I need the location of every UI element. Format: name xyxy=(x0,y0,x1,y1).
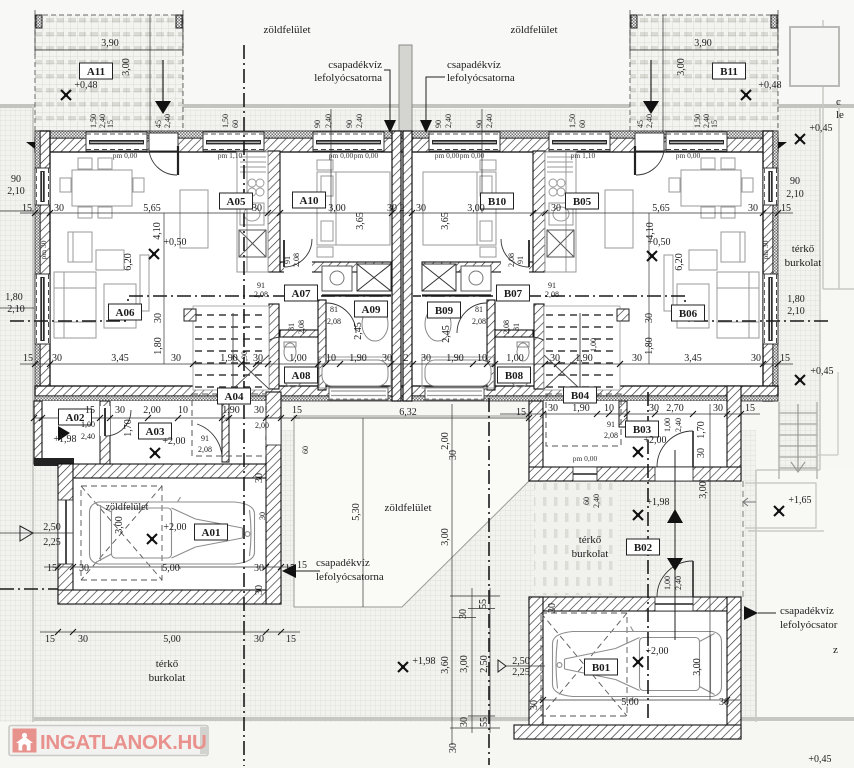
svg-text:A10: A10 xyxy=(300,195,319,207)
svg-text:3,45: 3,45 xyxy=(111,353,129,364)
svg-text:2,40: 2,40 xyxy=(81,432,95,441)
svg-text:90: 90 xyxy=(313,120,322,128)
svg-text:1,90: 1,90 xyxy=(220,353,238,364)
dimension line garage A outer y632 xyxy=(40,631,300,633)
axis line A vertical xyxy=(243,45,245,766)
bathtub A09 xyxy=(322,360,388,386)
svg-text:15: 15 xyxy=(745,403,755,414)
ticks annex A row xyxy=(31,415,532,421)
plot boundary left gray line xyxy=(32,106,34,722)
room label A11 xyxy=(80,63,113,79)
interior wall B A08/A09 divider xyxy=(487,300,495,390)
svg-text:30: 30 xyxy=(254,563,264,574)
interior wall B03 bottom xyxy=(529,467,741,481)
svg-text:90: 90 xyxy=(345,120,354,128)
svg-text:30: 30 xyxy=(649,403,659,414)
svg-text:15: 15 xyxy=(292,405,302,416)
svg-text:81: 81 xyxy=(512,323,521,331)
svg-text:burkolat: burkolat xyxy=(572,548,609,560)
svg-text:91: 91 xyxy=(283,256,292,264)
svg-text:c: c xyxy=(836,96,841,108)
svg-text:térkő: térkő xyxy=(156,658,179,670)
svg-text:15: 15 xyxy=(285,563,295,574)
svg-text:30: 30 xyxy=(548,403,558,414)
unit B furniture (mirrored) xyxy=(422,152,759,388)
svg-text:2,25: 2,25 xyxy=(43,537,61,548)
survey point NE xyxy=(795,134,805,144)
room label B11 xyxy=(713,63,746,79)
svg-text:1,90: 1,90 xyxy=(575,353,593,364)
svg-text:30: 30 xyxy=(253,353,263,364)
svg-text:60: 60 xyxy=(231,120,240,128)
svg-text:10: 10 xyxy=(477,353,487,364)
svg-text:lefolyócsatorna: lefolyócsatorna xyxy=(314,72,382,84)
A02/A03 divider xyxy=(100,401,110,464)
door arc bedroom B xyxy=(501,239,529,267)
svg-text:2,40: 2,40 xyxy=(444,114,453,128)
svg-text:pm 30: pm 30 xyxy=(39,240,48,259)
svg-text:15: 15 xyxy=(516,407,526,418)
sink oval A09 xyxy=(362,307,388,341)
svg-text:2,08: 2,08 xyxy=(327,317,341,326)
interior wall garage B01 bottom xyxy=(514,725,741,739)
landing outline +1,65 xyxy=(745,483,824,531)
svg-text:2,45: 2,45 xyxy=(441,325,452,343)
svg-text:+0,48: +0,48 xyxy=(758,80,781,91)
section line unit A xyxy=(10,296,392,321)
garage B01 door opening xyxy=(655,597,693,611)
terrace A11 dashed border xyxy=(35,15,183,133)
vertical dim chain x472 xyxy=(471,588,473,733)
svg-text:1,50: 1,50 xyxy=(89,114,98,128)
dimension line annex A row y418 xyxy=(34,417,300,419)
svg-text:pm 0,00: pm 0,00 xyxy=(460,151,485,160)
svg-text:2,08: 2,08 xyxy=(507,253,516,267)
svg-text:30: 30 xyxy=(448,450,459,460)
svg-text:30: 30 xyxy=(387,203,397,214)
A02 bottom wall xyxy=(34,458,74,466)
area above building plain xyxy=(0,0,854,107)
svg-text:2,00: 2,00 xyxy=(255,421,269,430)
svg-text:2,10: 2,10 xyxy=(787,306,805,317)
corner triangle right xyxy=(778,142,787,149)
svg-text:45: 45 xyxy=(636,120,645,128)
dimension line garage A inner y567 xyxy=(44,566,290,568)
interior wall A kitchen/bed A xyxy=(268,151,280,272)
svg-text:zöldfelület: zöldfelület xyxy=(106,502,149,513)
svg-text:2,40: 2,40 xyxy=(645,114,654,128)
axis line B vertical xyxy=(647,392,649,722)
svg-text:pm 0,00: pm 0,00 xyxy=(435,151,460,160)
survey point A11 xyxy=(61,90,71,100)
svg-text:30: 30 xyxy=(751,353,761,364)
svg-text:lefolyócsatorna: lefolyócsatorna xyxy=(447,72,515,84)
vertical dim line yard 5.30 xyxy=(362,418,364,607)
svg-text:2,08: 2,08 xyxy=(254,290,268,299)
rain outlet arrow terrace B xyxy=(643,60,659,114)
svg-text:B09: B09 xyxy=(435,305,454,317)
svg-text:6,32: 6,32 xyxy=(399,407,417,418)
room label A09 xyxy=(355,301,388,317)
room label B09 xyxy=(428,302,461,318)
outer wall right insulation xyxy=(773,131,778,401)
outer wall top insulation xyxy=(35,131,778,138)
vertical dim line B02 3.00 xyxy=(709,404,711,700)
svg-text:30: 30 xyxy=(79,563,89,574)
svg-text:B07: B07 xyxy=(504,288,523,300)
svg-text:91: 91 xyxy=(516,256,525,264)
svg-text:pm 0,00: pm 0,00 xyxy=(354,151,379,160)
terrace B11 post left xyxy=(631,15,637,28)
bottom ground band xyxy=(34,430,756,722)
svg-text:+0,45: +0,45 xyxy=(808,754,831,765)
svg-text:2,10: 2,10 xyxy=(7,186,25,197)
svg-text:15: 15 xyxy=(710,120,719,128)
ticks garage B row xyxy=(540,697,730,703)
svg-text:60: 60 xyxy=(582,497,591,505)
right paver strip xyxy=(778,107,820,470)
room label B03 xyxy=(626,421,659,437)
svg-text:15: 15 xyxy=(47,563,57,574)
downpipe arrow garage B xyxy=(744,606,758,620)
svg-text:A07: A07 xyxy=(292,288,311,300)
interior wall B stair/A08 wall xyxy=(534,304,544,389)
garage B01 door arc xyxy=(657,561,693,597)
svg-text:A09: A09 xyxy=(362,304,381,316)
svg-text:91: 91 xyxy=(257,281,265,290)
terrace B11 deck xyxy=(630,15,778,133)
washer A xyxy=(322,266,352,291)
vertical dim chain x490n xyxy=(489,588,491,733)
svg-text:+1,98: +1,98 xyxy=(412,656,435,667)
svg-text:1,90: 1,90 xyxy=(349,353,367,364)
party wall leaf B xyxy=(403,131,412,401)
interior wall garage B01 right xyxy=(727,597,741,739)
svg-text:91: 91 xyxy=(607,420,615,429)
survey point B01 xyxy=(633,657,643,667)
svg-text:A11: A11 xyxy=(87,66,105,78)
vertical dim chain x452 xyxy=(451,404,453,745)
garage A left dim line xyxy=(0,532,73,534)
armchair A xyxy=(68,232,92,262)
svg-text:2,50: 2,50 xyxy=(479,655,490,673)
ramp arrow B02 up xyxy=(667,450,683,640)
svg-text:15: 15 xyxy=(45,634,55,645)
room label A08 xyxy=(285,367,318,383)
dimension line garage B inner y668 xyxy=(540,699,740,701)
interior wall B kitchen/bed A xyxy=(533,151,545,272)
interior wall B03 right wall xyxy=(727,386,741,481)
right boundary extra lines xyxy=(816,372,838,455)
chain tick lines xyxy=(450,596,500,728)
door arc A08 xyxy=(256,337,282,363)
A02 door leaf xyxy=(100,406,110,436)
svg-text:INGATLANOK.HU: INGATLANOK.HU xyxy=(40,731,207,754)
corner triangle left xyxy=(26,142,35,149)
svg-text:30: 30 xyxy=(254,585,265,595)
room label B05 xyxy=(566,193,599,209)
room label A01 xyxy=(195,524,228,540)
svg-text:2,50: 2,50 xyxy=(512,656,530,667)
survey point B06 xyxy=(647,251,657,261)
plot boundary bottom gray line xyxy=(34,717,854,721)
window A-3 in top wall xyxy=(313,132,384,151)
B09 top wall line xyxy=(422,294,491,296)
interior wall A02 left wall xyxy=(34,401,42,464)
dimension line annex B row y414 xyxy=(500,413,760,415)
svg-text:2,40: 2,40 xyxy=(324,114,333,128)
svg-text:1,90: 1,90 xyxy=(572,403,590,414)
svg-text:1,80: 1,80 xyxy=(5,292,23,303)
svg-text:pm 30: pm 30 xyxy=(761,240,770,259)
door arc B08 xyxy=(531,337,557,363)
svg-text:5,30: 5,30 xyxy=(351,503,362,521)
svg-text:30: 30 xyxy=(458,609,469,619)
B04 porch dashed xyxy=(546,394,621,446)
svg-text:90: 90 xyxy=(475,120,484,128)
svg-text:1,80: 1,80 xyxy=(644,337,655,355)
svg-text:30: 30 xyxy=(416,203,426,214)
dining table A xyxy=(72,170,132,206)
svg-text:15: 15 xyxy=(85,405,95,416)
entry arrow left plot xyxy=(20,526,33,541)
svg-text:1,00: 1,00 xyxy=(589,338,598,352)
dimension line row y364 xyxy=(20,363,793,365)
svg-text:10: 10 xyxy=(604,403,614,414)
axis line left short xyxy=(0,588,58,590)
plot boundary top gray line xyxy=(0,104,854,108)
vertical dim line B 4.10 xyxy=(648,213,650,364)
svg-text:2,50: 2,50 xyxy=(43,522,61,533)
svg-text:3,00: 3,00 xyxy=(121,58,132,76)
svg-text:pm 0,00: pm 0,00 xyxy=(676,151,701,160)
coffee table A xyxy=(104,284,136,328)
garage A01 door opening xyxy=(58,500,73,564)
svg-text:4,10: 4,10 xyxy=(152,222,163,240)
svg-text:1,00: 1,00 xyxy=(289,353,307,364)
svg-text:+1,98: +1,98 xyxy=(646,497,669,508)
svg-text:1,00: 1,00 xyxy=(506,353,524,364)
svg-text:30: 30 xyxy=(421,353,431,364)
room label A05 xyxy=(220,193,253,209)
svg-text:30: 30 xyxy=(644,313,655,323)
ticks row y364 xyxy=(32,361,781,367)
svg-text:30: 30 xyxy=(696,448,707,458)
svg-text:2,08: 2,08 xyxy=(545,290,559,299)
survey point B11 xyxy=(741,90,751,100)
svg-text:2: 2 xyxy=(400,203,405,214)
sofa A xyxy=(54,272,96,338)
svg-text:5,00: 5,00 xyxy=(621,697,639,708)
survey point A03 xyxy=(150,448,160,458)
garage B01 floor xyxy=(529,597,741,739)
interior wall A A08/A09 divider xyxy=(318,300,326,390)
room label B06 xyxy=(672,305,705,321)
bottom-right plain ground xyxy=(756,470,854,722)
svg-text:2,70: 2,70 xyxy=(666,403,684,414)
interior wall B bed A bottom xyxy=(422,262,533,272)
svg-text:+1,65: +1,65 xyxy=(788,495,811,506)
A03/A04 divider xyxy=(222,401,229,462)
svg-text:15: 15 xyxy=(780,353,790,364)
B03 garden door arc xyxy=(657,431,693,467)
svg-text:B08: B08 xyxy=(505,370,524,382)
svg-text:30: 30 xyxy=(258,512,267,520)
svg-text:1,50: 1,50 xyxy=(568,114,577,128)
central garden yard zoldfelulet xyxy=(294,416,529,607)
svg-text:B06: B06 xyxy=(679,308,698,320)
interior wall B03 left wall xyxy=(529,401,543,481)
room label B04 xyxy=(564,387,597,403)
room label B01 xyxy=(585,659,618,675)
svg-text:1,50: 1,50 xyxy=(221,114,230,128)
sidewalk band above building xyxy=(35,109,778,131)
B03 interior door arc xyxy=(317,0,319,1)
door gap bedroom B xyxy=(501,261,529,273)
svg-text:+0,45: +0,45 xyxy=(810,366,833,377)
svg-text:pm 1,10: pm 1,10 xyxy=(218,151,243,160)
B03 floor xyxy=(529,401,741,481)
interior wall garage A01 bottom xyxy=(58,590,281,604)
outer wall bottom insulation xyxy=(35,396,778,401)
A03 door arc xyxy=(197,424,222,461)
room label A07 xyxy=(285,285,318,301)
svg-text:30: 30 xyxy=(448,743,459,753)
window A-1 in top wall xyxy=(86,132,147,151)
interior wall A bed A bottom xyxy=(280,262,391,272)
terrace B11 dim lines xyxy=(630,10,778,133)
dimension line row y213 xyxy=(20,212,793,214)
svg-text:B05: B05 xyxy=(573,196,592,208)
A04 porch dashed xyxy=(192,394,266,456)
A02 door arc xyxy=(105,410,131,436)
car in garage A01 xyxy=(90,497,255,569)
svg-text:A04: A04 xyxy=(225,391,244,403)
svg-text:30: 30 xyxy=(719,697,729,708)
svg-text:2,08: 2,08 xyxy=(198,445,212,454)
svg-text:60: 60 xyxy=(578,120,587,128)
svg-text:81: 81 xyxy=(475,305,483,314)
svg-text:3,90: 3,90 xyxy=(101,38,119,49)
svg-text:zöldfelület: zöldfelület xyxy=(384,502,431,514)
window B-2 in top wall xyxy=(549,132,610,151)
svg-text:2,08: 2,08 xyxy=(292,253,301,267)
downpipe arrow right label xyxy=(420,77,445,133)
svg-text:pm 0,00: pm 0,00 xyxy=(329,151,354,160)
B03/B04 stub wall xyxy=(619,401,627,427)
svg-text:30: 30 xyxy=(632,353,642,364)
party wall stub above roof xyxy=(399,45,412,131)
room label A10 xyxy=(293,192,326,208)
svg-text:B10: B10 xyxy=(488,196,507,208)
svg-text:A05: A05 xyxy=(227,196,246,208)
svg-text:30: 30 xyxy=(171,353,181,364)
svg-text:3,00: 3,00 xyxy=(114,516,125,534)
svg-text:A08: A08 xyxy=(292,370,311,382)
svg-text:2,25: 2,25 xyxy=(512,667,530,678)
svg-text:3,45: 3,45 xyxy=(684,353,702,364)
room label B08 xyxy=(498,367,531,383)
door arc bedroom A xyxy=(284,239,312,267)
survey point E xyxy=(795,375,805,385)
svg-text:2,08: 2,08 xyxy=(604,431,618,440)
staircase unit B xyxy=(544,306,629,390)
svg-text:1,70: 1,70 xyxy=(696,421,707,439)
svg-text:30: 30 xyxy=(54,203,64,214)
room label B07 xyxy=(497,285,530,301)
svg-text:2,08: 2,08 xyxy=(297,320,306,334)
outer wall bottom hatch xyxy=(35,386,778,396)
left edge dim line y211 xyxy=(0,211,34,308)
party wall leaf A xyxy=(392,131,401,401)
svg-text:30: 30 xyxy=(748,203,758,214)
interior wall A A08 top xyxy=(280,330,318,337)
terrace A11 dash rows xyxy=(35,15,183,133)
svg-text:15: 15 xyxy=(297,560,307,571)
terrace A11 deck xyxy=(35,15,183,133)
svg-text:A01: A01 xyxy=(202,527,221,539)
section line unit B xyxy=(413,296,828,321)
svg-text:2,40: 2,40 xyxy=(674,418,683,432)
terrace B11 dash rows xyxy=(630,15,778,133)
small arrow to landing xyxy=(743,498,756,506)
svg-text:90: 90 xyxy=(11,174,21,185)
svg-text:30: 30 xyxy=(529,700,540,710)
survey point B02 xyxy=(633,510,643,520)
svg-text:3,00: 3,00 xyxy=(692,658,703,676)
building interior floor xyxy=(35,131,778,401)
svg-text:10: 10 xyxy=(178,405,188,416)
svg-text:2,40: 2,40 xyxy=(163,114,172,128)
svg-text:2,10: 2,10 xyxy=(786,189,804,200)
svg-text:3,00: 3,00 xyxy=(698,481,709,499)
interior wall garage B01 top xyxy=(529,597,741,611)
svg-text:+2,00: +2,00 xyxy=(645,646,668,657)
svg-text:1,90: 1,90 xyxy=(446,353,464,364)
svg-text:30: 30 xyxy=(547,603,558,613)
kitchen counter A xyxy=(237,152,268,272)
ticks annex B row xyxy=(526,411,744,417)
survey point SE xyxy=(774,506,784,516)
svg-text:3,65: 3,65 xyxy=(355,212,366,230)
svg-text:1,00: 1,00 xyxy=(81,420,95,429)
svg-text:1,90: 1,90 xyxy=(222,405,240,416)
window right-1 in side wall xyxy=(763,168,778,205)
garage A01 floor xyxy=(58,464,281,604)
svg-text:3,00: 3,00 xyxy=(676,58,687,76)
window B-3 in top wall xyxy=(429,132,500,151)
vertical dim line B upper xyxy=(481,109,483,213)
axis line center vertical xyxy=(488,398,490,765)
svg-text:30: 30 xyxy=(382,353,392,364)
svg-text:91: 91 xyxy=(548,281,556,290)
svg-text:90: 90 xyxy=(790,176,800,187)
staircase unit A xyxy=(184,306,269,390)
svg-text:térkő: térkő xyxy=(579,534,602,546)
downpipe arrow left label xyxy=(384,70,396,133)
svg-text:55: 55 xyxy=(478,599,489,609)
window right-terrace-door in side wall xyxy=(763,274,778,344)
B03 garden door opening xyxy=(655,467,693,481)
downpipe line garage A xyxy=(296,570,320,572)
terrace B11 post right xyxy=(771,15,777,28)
garage B entry arrow xyxy=(498,660,506,672)
car envelope dashed A xyxy=(81,486,162,580)
svg-text:2,08: 2,08 xyxy=(502,320,511,334)
svg-text:45: 45 xyxy=(154,120,163,128)
tv bench A xyxy=(140,255,149,311)
bed A10 xyxy=(317,172,390,245)
